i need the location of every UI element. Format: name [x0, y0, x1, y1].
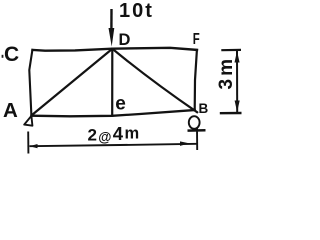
right dimension bottom cap: [220, 112, 242, 115]
force arrow 10t at D: [109, 9, 115, 47]
member right vertical F-B: [195, 50, 197, 110]
right dimension bottom arrowhead: [235, 101, 240, 113]
svg-text:4: 4: [113, 123, 124, 144]
pin support at A (triangle): [24, 116, 32, 126]
bottom dimension line: [30, 144, 198, 146]
member bottom chord A-E-B: [31, 110, 194, 116]
bottom dimension text 2@4m: [88, 123, 140, 145]
svg-text:F: F: [193, 31, 200, 48]
member diagonal A-D: [32, 49, 113, 116]
svg-text:2: 2: [88, 125, 97, 144]
dimension right extension tick: [196, 128, 198, 151]
bottom dimension left arrowhead: [30, 144, 38, 148]
svg-text:3m: 3m: [216, 56, 237, 89]
bottom dimension right arrowhead: [180, 141, 190, 146]
svg-text:@: @: [98, 129, 111, 144]
dimension left extension tick: [27, 132, 29, 154]
member middle vertical D-E: [111, 49, 113, 116]
svg-text:m: m: [125, 125, 140, 143]
right dimension top arrowhead: [235, 51, 240, 63]
right dimension vertical line: [236, 51, 238, 113]
svg-text:e: e: [115, 94, 126, 115]
svg-text:A: A: [3, 99, 18, 122]
roller support at B (circle): [189, 116, 200, 129]
svg-text:B: B: [199, 101, 209, 116]
roller ground line: [188, 129, 206, 132]
member diagonal D-B: [113, 49, 198, 112]
member left vertical C-A: [29, 50, 32, 116]
member top chord C-D-F: [33, 48, 198, 51]
svg-text:10t: 10t: [119, 0, 154, 22]
stray dot left of C: [2, 55, 4, 58]
svg-text:D: D: [119, 31, 131, 49]
right dimension top cap: [221, 49, 241, 51]
svg-text:C: C: [4, 43, 19, 66]
